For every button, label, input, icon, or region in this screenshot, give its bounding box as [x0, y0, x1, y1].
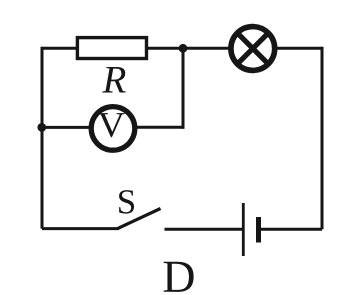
label V (voltmeter face)	[98, 113, 125, 137]
switch S blade	[118, 209, 161, 229]
node: junction top	[179, 44, 188, 53]
wire: bottom-left to switch pivot	[42, 227, 119, 230]
wire: voltmeter branch left	[42, 126, 93, 129]
wire: resistor to lamp	[147, 47, 231, 50]
label S (switch)	[119, 190, 134, 214]
wire: vertical connector up to junction	[182, 48, 185, 129]
lamp (circle with X)	[231, 27, 275, 71]
label R (resistor)	[102, 67, 125, 93]
node: junction left	[37, 123, 46, 132]
label D (battery/source)	[164, 262, 194, 292]
wire: top-left corner to resistor	[42, 47, 78, 50]
battery: short thick plate	[256, 217, 261, 243]
wire: right vertical	[321, 47, 324, 229]
battery: long thin plate	[242, 203, 245, 256]
wire: battery to switch contact	[165, 228, 244, 231]
resistor R	[77, 38, 146, 59]
wire: bottom-right to battery	[259, 228, 322, 231]
wire: lamp to top-right corner	[274, 47, 322, 50]
wire: voltmeter to vertical connector	[133, 126, 185, 129]
voltmeter V	[91, 107, 135, 151]
wire: left vertical	[41, 47, 44, 229]
